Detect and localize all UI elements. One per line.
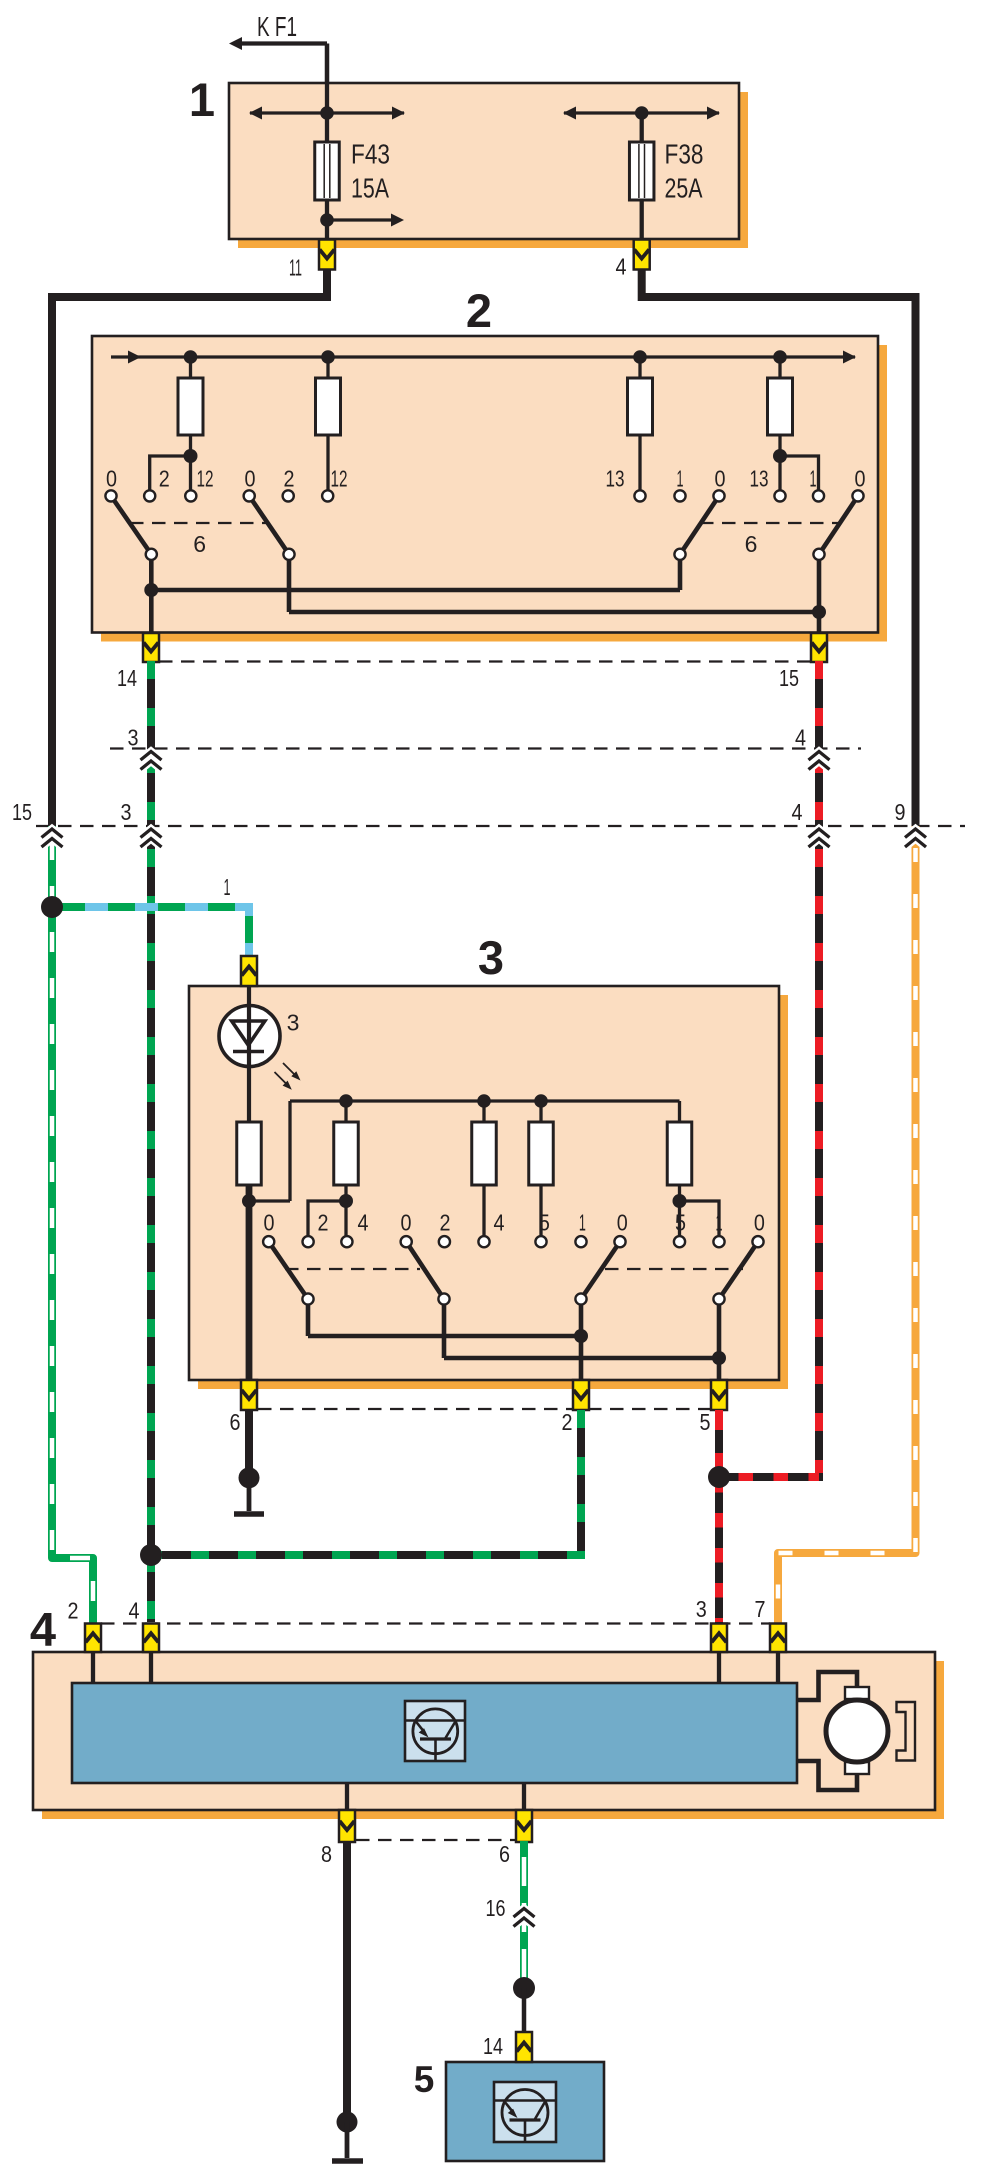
svg-text:2: 2	[466, 284, 492, 337]
svg-text:3: 3	[121, 799, 132, 825]
svg-text:6: 6	[745, 531, 758, 557]
svg-text:13: 13	[750, 466, 769, 492]
svg-text:3: 3	[478, 931, 504, 984]
svg-text:1: 1	[677, 466, 684, 492]
svg-text:1: 1	[716, 1210, 723, 1236]
svg-text:0: 0	[617, 1210, 628, 1236]
svg-text:2: 2	[318, 1210, 329, 1236]
svg-text:4: 4	[494, 1210, 505, 1236]
svg-text:4: 4	[30, 1603, 56, 1656]
svg-text:5: 5	[539, 1210, 550, 1236]
svg-text:2: 2	[284, 466, 295, 492]
svg-text:14: 14	[117, 665, 137, 691]
svg-text:4: 4	[129, 1598, 140, 1624]
svg-text:4: 4	[358, 1210, 369, 1236]
svg-text:8: 8	[321, 1841, 332, 1867]
svg-text:25A: 25A	[665, 173, 703, 204]
svg-text:1: 1	[189, 73, 215, 126]
svg-text:2: 2	[159, 466, 170, 492]
svg-text:6: 6	[499, 1841, 510, 1867]
svg-text:F38: F38	[665, 139, 704, 170]
svg-text:12: 12	[331, 466, 348, 492]
svg-text:0: 0	[401, 1210, 412, 1236]
svg-text:2: 2	[440, 1210, 451, 1236]
svg-text:0: 0	[754, 1210, 765, 1236]
svg-text:1: 1	[224, 874, 231, 900]
svg-text:3: 3	[128, 725, 139, 751]
svg-text:14: 14	[483, 2033, 503, 2059]
svg-text:13: 13	[606, 466, 625, 492]
svg-text:15: 15	[779, 665, 799, 691]
svg-text:4: 4	[616, 254, 627, 280]
svg-text:16: 16	[486, 1895, 506, 1921]
svg-text:4: 4	[795, 725, 806, 751]
svg-text:2: 2	[562, 1409, 573, 1435]
svg-text:15A: 15A	[351, 173, 389, 204]
svg-text:F43: F43	[351, 139, 390, 170]
svg-text:5: 5	[700, 1409, 711, 1435]
svg-text:4: 4	[792, 799, 803, 825]
svg-text:7: 7	[755, 1596, 766, 1622]
svg-text:3: 3	[287, 1010, 300, 1036]
svg-text:K F1: K F1	[257, 11, 297, 42]
svg-text:1: 1	[810, 466, 817, 492]
svg-text:15: 15	[12, 799, 32, 825]
svg-text:9: 9	[895, 799, 906, 825]
svg-text:5: 5	[414, 2059, 435, 2100]
svg-text:1: 1	[579, 1210, 586, 1236]
svg-text:0: 0	[715, 466, 726, 492]
svg-text:3: 3	[696, 1596, 707, 1622]
svg-text:11: 11	[289, 255, 302, 281]
svg-text:0: 0	[264, 1210, 275, 1236]
svg-text:6: 6	[193, 531, 206, 557]
svg-text:2: 2	[68, 1598, 79, 1624]
svg-text:6: 6	[230, 1409, 241, 1435]
svg-text:0: 0	[106, 466, 117, 492]
svg-text:5: 5	[675, 1210, 686, 1236]
svg-text:0: 0	[245, 466, 256, 492]
svg-text:12: 12	[197, 466, 214, 492]
svg-text:0: 0	[855, 466, 866, 492]
